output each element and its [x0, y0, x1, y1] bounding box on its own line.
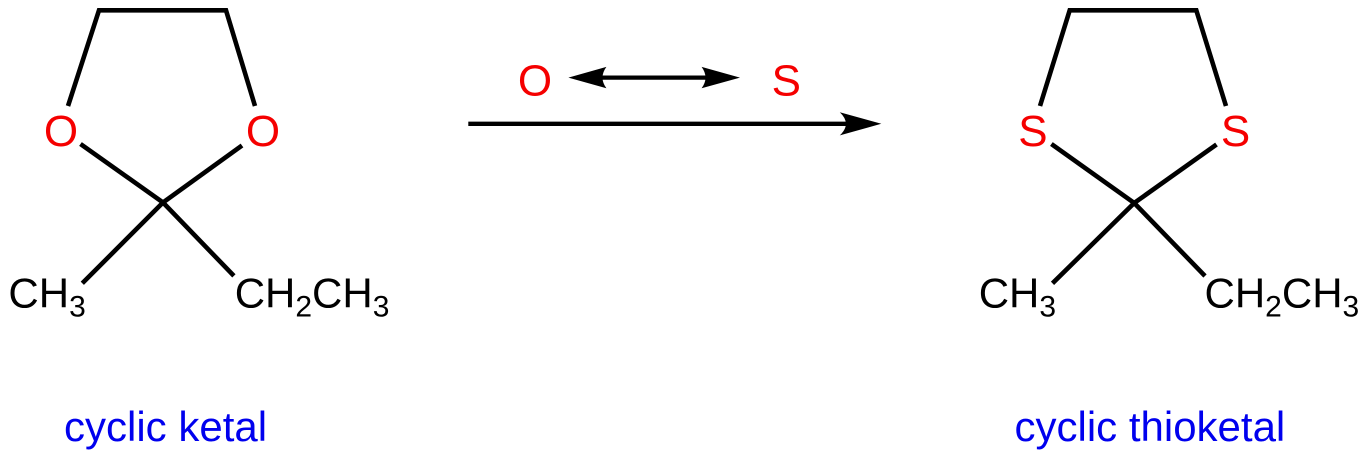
left ring bond O3-C2 — [163, 146, 242, 203]
svg-text:cyclic thioketal: cyclic thioketal — [1015, 403, 1286, 450]
svg-text:O: O — [44, 107, 78, 156]
svg-text:cyclic ketal: cyclic ketal — [64, 403, 267, 450]
right ring bond S3-C2 — [1134, 145, 1216, 204]
svg-text:CH2CH3: CH2CH3 — [1205, 270, 1360, 324]
svg-text:O: O — [518, 57, 552, 106]
right ring bonds S1-C5, C5-C4 (top), C4-S3 — [1040, 10, 1226, 106]
left bond C2-CH2CH3 — [163, 203, 234, 276]
left bond C2-CH3 — [82, 203, 163, 284]
double-headed arrow O to S — [568, 67, 740, 88]
svg-text:S: S — [1018, 107, 1047, 156]
right bond C2-CH3 — [1053, 203, 1135, 283]
reaction arrow — [468, 112, 881, 135]
svg-text:O: O — [246, 107, 280, 156]
right ring bond S1-C2 — [1051, 144, 1134, 203]
left ring bonds O1-C5, C5-C4 (top), C4-O3 — [68, 10, 255, 106]
left ring bond O1-C2 — [81, 144, 164, 203]
svg-text:S: S — [1221, 107, 1250, 156]
svg-text:CH2CH3: CH2CH3 — [235, 270, 390, 324]
svg-text:S: S — [772, 57, 801, 106]
right bond C2-CH2CH3 — [1134, 203, 1205, 276]
